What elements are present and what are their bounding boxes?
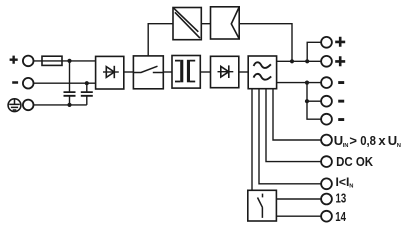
label + output 1 — [335, 37, 345, 47]
wire signal Uin — [273, 89, 321, 140]
wire U2 top to A1 — [148, 24, 173, 56]
label - output 1 — [338, 81, 344, 84]
terminal output minus 1 — [321, 77, 332, 88]
wire U1-U2 — [124, 71, 134, 73]
terminal 14 — [321, 211, 332, 222]
fuse F1 — [42, 56, 62, 65]
wire plus bus — [277, 60, 322, 62]
wire signal DC OK — [266, 89, 321, 162]
terminal output plus 2 — [321, 56, 332, 67]
svg-text:I<IN: I<IN — [336, 175, 354, 190]
switch block U2 — [133, 56, 163, 89]
terminal I<In — [321, 178, 332, 189]
diode block D1 — [211, 56, 239, 87]
svg-text:13: 13 — [336, 192, 347, 206]
node junction ground-cap1 — [67, 103, 71, 107]
node junction A2-plusbus — [290, 59, 294, 63]
node junction minus-cap2 — [85, 81, 89, 85]
wire A2 to plus bus — [239, 24, 292, 62]
wire U2-T1 — [163, 71, 172, 73]
wire input minus — [34, 82, 96, 84]
terminal output plus 1 — [321, 37, 332, 48]
wire ground — [34, 104, 87, 106]
relay block K1 — [248, 190, 277, 221]
rectifier block U1 — [96, 56, 124, 89]
wire relay contact 13 — [276, 198, 321, 200]
wire input plus — [34, 60, 96, 62]
node junction plus branch — [305, 59, 309, 63]
capacitor C1 — [64, 61, 76, 105]
node junction minus mid — [305, 99, 309, 103]
wire signal I<In — [259, 89, 321, 184]
terminal input plus — [23, 56, 34, 67]
transformer block T1 — [172, 56, 200, 89]
wire relay contact 14 — [276, 215, 321, 217]
wire A1-A2 — [201, 23, 210, 25]
converter block A1 — [173, 8, 201, 40]
wire minus mid stub — [307, 100, 321, 102]
wire signal relay — [251, 89, 253, 191]
wire minus bus — [277, 82, 322, 84]
terminal Uin — [321, 135, 332, 146]
wire plus branch up — [307, 42, 321, 61]
terminal output minus 3 — [321, 114, 332, 125]
limiter block A2 — [211, 7, 240, 39]
regulator block U3 — [248, 56, 276, 89]
wire minus branch down — [307, 83, 321, 120]
svg-text:DC OK: DC OK — [336, 155, 374, 169]
svg-text:14: 14 — [335, 210, 346, 224]
terminal 13 — [321, 194, 332, 205]
label - (input minus) — [12, 81, 18, 84]
label + (input plus) — [10, 56, 18, 64]
terminal input minus — [23, 78, 34, 89]
ground PE symbol — [8, 99, 21, 112]
svg-text:UIN>0,8xUN: UIN>0,8xUN — [334, 133, 401, 149]
label - output 3 — [338, 118, 344, 121]
node junction minus branch — [305, 81, 309, 85]
terminal output minus 2 — [321, 96, 332, 107]
wire D1-U3 — [239, 71, 248, 73]
label + output 2 — [335, 56, 345, 66]
label - output 2 — [338, 100, 344, 103]
terminal ground — [23, 100, 34, 111]
capacitor C2 — [81, 83, 93, 105]
wire T1-D1 — [200, 71, 210, 73]
terminal DC OK — [321, 156, 332, 167]
node junction plus-cap1 — [67, 59, 71, 63]
